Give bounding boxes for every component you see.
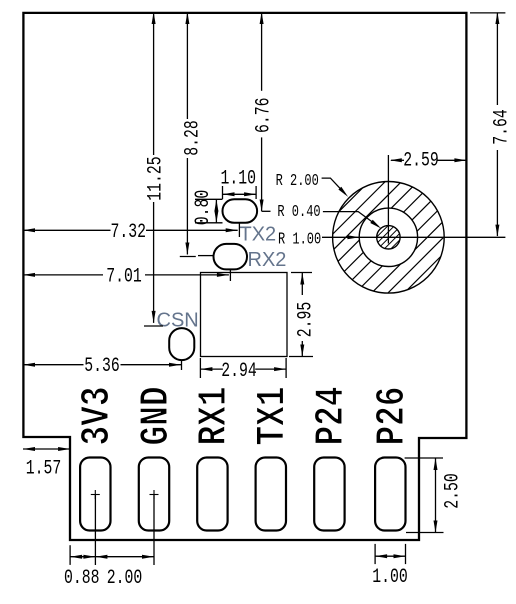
- dimension 1.57: [23, 447, 70, 480]
- pad origin cross: [150, 490, 159, 499]
- dimension 1.10: [221, 167, 257, 199]
- svg-text:7.32: 7.32: [110, 221, 146, 244]
- svg-text:2.59: 2.59: [403, 150, 439, 173]
- square pad outline: [201, 273, 288, 357]
- dimension 2.94: [200, 358, 286, 383]
- dimension 5.36: [23, 355, 182, 378]
- dimension 6.76: [253, 12, 276, 212]
- label R 2.00 with leader: [276, 173, 348, 197]
- dimension 0.88: [64, 545, 100, 590]
- pad RX1: [197, 458, 227, 531]
- hatching inner circle: [343, 217, 435, 257]
- svg-text:GND: GND: [134, 387, 180, 446]
- svg-text:P26: P26: [370, 387, 416, 446]
- svg-text:7.01: 7.01: [106, 266, 142, 289]
- pad TX1: [256, 458, 286, 531]
- hole center lines: [322, 155, 505, 244]
- pad 3V3: [80, 458, 110, 531]
- dimension 0.80: [192, 190, 222, 226]
- svg-text:RX2: RX2: [248, 249, 287, 271]
- dimension 7.64: [470, 12, 513, 237]
- svg-text:R 0.40: R 0.40: [277, 203, 320, 221]
- svg-text:R 1.00: R 1.00: [278, 231, 321, 249]
- svg-text:8.28: 8.28: [182, 120, 205, 156]
- svg-text:R 2.00: R 2.00: [276, 173, 319, 191]
- oval pad RX2: [214, 244, 248, 270]
- svg-text:TX1: TX1: [251, 387, 297, 446]
- svg-text:2.94: 2.94: [221, 360, 257, 383]
- pad P24: [314, 458, 344, 531]
- svg-text:2.00: 2.00: [107, 567, 143, 590]
- svg-text:RX1: RX1: [192, 387, 238, 446]
- svg-text:1.10: 1.10: [221, 167, 257, 190]
- svg-text:6.76: 6.76: [253, 98, 276, 134]
- svg-text:P24: P24: [309, 387, 355, 446]
- hatching outer ring: [194, 167, 516, 307]
- extension line pad1 center: [94, 495, 96, 565]
- svg-text:11.25: 11.25: [145, 156, 168, 200]
- dimension 7.01: [23, 266, 230, 289]
- pad P26: [375, 458, 405, 531]
- inner circle R0.40: [377, 226, 400, 249]
- svg-text:0.80: 0.80: [192, 190, 215, 226]
- dimension 2.59: [390, 150, 467, 173]
- extension line pad2 center: [153, 495, 155, 565]
- svg-text:2.95: 2.95: [295, 302, 318, 338]
- svg-text:7.64: 7.64: [491, 109, 514, 145]
- svg-text:1.00: 1.00: [372, 566, 408, 589]
- svg-text:5.36: 5.36: [84, 355, 120, 378]
- label R 0.40 with leader: [277, 203, 381, 228]
- svg-text:CSN: CSN: [157, 310, 199, 332]
- dimension 2.95: [289, 273, 317, 357]
- svg-text:0.88: 0.88: [64, 567, 100, 590]
- outer circle R2.00: [333, 182, 445, 294]
- oval pad TX2: [223, 199, 258, 223]
- dimension 2.00: [95, 555, 154, 590]
- dimension 2.50: [405, 458, 465, 533]
- dimension 8.28: [180, 12, 214, 257]
- pad GND: [139, 458, 169, 531]
- pad origin cross: [91, 490, 100, 499]
- dimension 1.00: [372, 544, 408, 589]
- dimension 11.25: [144, 12, 167, 326]
- label R 1.00 with leader: [278, 231, 359, 249]
- middle circle R1.00: [359, 208, 417, 266]
- oval pad CSN: [169, 328, 194, 360]
- svg-text:TX2: TX2: [240, 224, 277, 246]
- board outline: [23, 13, 466, 540]
- svg-text:1.57: 1.57: [26, 458, 62, 481]
- svg-text:2.50: 2.50: [442, 473, 465, 509]
- dimension 7.32: [23, 221, 239, 244]
- svg-text:3V3: 3V3: [75, 387, 121, 446]
